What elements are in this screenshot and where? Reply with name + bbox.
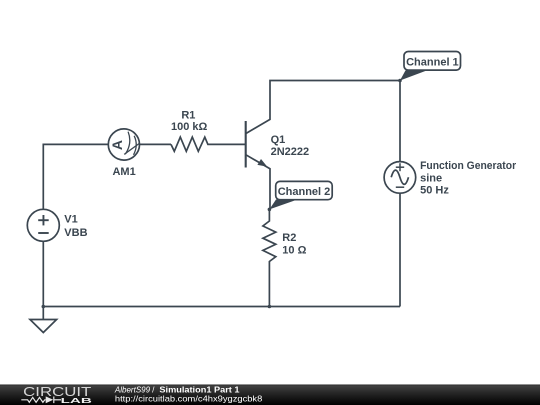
svg-text:V1: V1 [64, 214, 77, 226]
svg-text:AM1: AM1 [112, 166, 135, 178]
svg-text:sine: sine [420, 172, 442, 184]
svg-text:Channel 2: Channel 2 [278, 186, 331, 198]
svg-text:A: A [109, 140, 125, 150]
svg-text:R1: R1 [181, 109, 195, 121]
svg-text:10 Ω: 10 Ω [282, 244, 306, 256]
svg-text:Channel 1: Channel 1 [406, 56, 459, 68]
svg-text:2N2222: 2N2222 [271, 146, 310, 158]
svg-text:http://circuitlab.com/c4hx9ygz: http://circuitlab.com/c4hx9ygzgcbk8 [115, 394, 263, 404]
svg-text:Q1: Q1 [271, 134, 286, 146]
svg-text:Function Generator: Function Generator [420, 160, 517, 172]
svg-text:50 Hz: 50 Hz [420, 185, 449, 197]
svg-text:R2: R2 [282, 232, 296, 244]
svg-text:100 kΩ: 100 kΩ [171, 121, 208, 133]
svg-text:VBB: VBB [64, 227, 87, 239]
svg-text:LAB: LAB [61, 396, 93, 405]
